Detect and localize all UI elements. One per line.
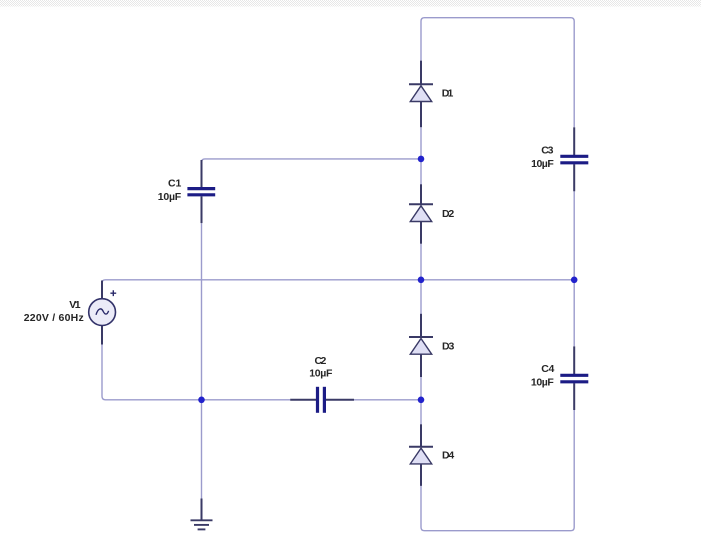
diode D4 [409, 424, 433, 486]
svg-text:C2: C2 [315, 355, 327, 367]
junction node D [198, 397, 205, 404]
junction node A [418, 156, 425, 163]
wire bottom rail from D4 to right branch [421, 410, 574, 531]
svg-text:10µF: 10µF [531, 158, 554, 170]
wire middle rail V1 to right branch [102, 280, 574, 283]
wire C1 top rail to node A [202, 159, 422, 162]
ground [191, 499, 213, 530]
wire right branch C3 to C4 [573, 191, 575, 346]
svg-text:D1: D1 [442, 88, 454, 100]
svg-text:C1: C1 [168, 178, 182, 190]
svg-text:D3: D3 [442, 340, 455, 352]
svg-text:V1: V1 [69, 299, 80, 311]
wire C1 branch down to ground [201, 223, 203, 498]
svg-text:10µF: 10µF [531, 377, 554, 389]
svg-text:10µF: 10µF [158, 191, 182, 203]
capacitor C4 [560, 346, 588, 410]
wire C2 to diode chain [354, 399, 421, 401]
diode D1 [409, 61, 433, 128]
wire top rail with left and right verticals [421, 18, 574, 128]
svg-text:D4: D4 [442, 450, 454, 462]
svg-text:10µF: 10µF [309, 367, 333, 379]
wire bottom rail V1 to C2 [102, 345, 290, 400]
diode D2 [409, 184, 433, 244]
svg-text:220V / 60Hz: 220V / 60Hz [24, 312, 84, 324]
capacitor C3 [560, 127, 588, 191]
capacitor C2 [290, 387, 354, 413]
junction node B [418, 277, 425, 284]
wire between D2 and D3 [420, 244, 422, 314]
junction node E [418, 397, 425, 404]
diode D3 [409, 314, 433, 377]
wire between D1 and D2 [420, 127, 422, 184]
source V1 [89, 281, 117, 345]
capacitor C1 [187, 160, 215, 223]
svg-text:C4: C4 [541, 363, 554, 375]
wire between D3 and D4 [420, 377, 422, 424]
svg-text:D2: D2 [442, 208, 454, 220]
junction node C [571, 277, 578, 284]
svg-text:C3: C3 [541, 144, 553, 156]
